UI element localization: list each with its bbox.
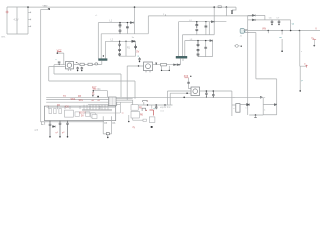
wire diodes join [255,15,290,20]
svg-text:u1: u1 [95,15,98,17]
connector J1 [240,29,246,34]
module G1 (circle in box) [66,62,74,69]
svg-text:c: c [56,59,58,61]
svg-text:n: n [233,108,234,110]
dot module1 cap [59,64,60,65]
wire bus line 2 [46,99,116,101]
wire J1 to diodes [244,15,252,32]
diode D12 mid [174,64,177,66]
wire jumper down [143,102,145,105]
svg-text:rev1: rev1 [160,110,165,113]
capacitor C1 stack A [119,23,122,28]
svg-text:io: io [122,112,124,114]
junction dots cluster A [119,22,120,23]
junction dots cluster D [197,40,198,41]
red flag far right dot [314,45,316,47]
wire module1 left pin run 2 [49,67,135,99]
wire right drop [290,20,292,31]
svg-text:n: n [264,97,266,99]
module block A1 (big board) [44,106,115,121]
stub right of loop [128,115,130,121]
junction dots output [206,90,208,92]
svg-text:5v: 5v [132,37,135,39]
jumper comp [143,100,147,102]
svg-text:d0: d0 [92,100,95,102]
svg-text:C7: C7 [276,18,280,20]
connector J2 right [236,104,240,113]
svg-text:SCL: SCL [79,100,84,102]
capacitor C15 right C [134,45,137,50]
flag dark mark [190,76,191,77]
capacitor C16 below C [138,57,141,61]
junction dots cluster B [196,21,197,22]
svg-text:R1: R1 [127,48,131,50]
node flag red left of IC U3 [92,88,97,90]
wire vertical to corner [300,31,307,67]
node VCC flag module1 [57,49,62,52]
wire module2 left pin [127,66,143,100]
wire bottom rail right [244,30,320,32]
resistor bank RN3 [59,108,61,113]
wire verticals cluster [241,97,275,115]
node label red mid right [305,65,307,68]
diode D8 [247,104,250,106]
svg-text:r: r [147,99,148,102]
svg-text:p: p [302,80,304,82]
wire module1 left pin run [54,65,121,98]
wire RST run [94,91,108,97]
sub box U4 [65,110,74,117]
svg-text:s: s [301,51,303,53]
capacitor C3 stack A2 [126,27,129,28]
svg-text:V: V [315,27,317,30]
box K1 [131,105,138,111]
wire stack C2 [125,41,127,56]
svg-text:VIN: VIN [262,28,266,31]
dark square below Q1 [151,126,153,128]
capacitor C19 stack D [197,53,200,56]
capacitor C27 [278,20,281,24]
wire bottom rail cell2 [263,105,277,115]
ground loop bottom [107,135,109,137]
capacitor C30 output [212,91,215,97]
box K2 [131,111,139,118]
svg-text:d1: d1 [98,100,101,102]
svg-text:RST: RST [92,88,97,90]
ground mid cluster [255,114,257,116]
wire U return [162,66,170,71]
capacitor C22 module1 right [76,67,79,70]
wire module2 right to IC2 [153,58,184,64]
wire stub right 3 [267,31,269,34]
svg-text:g: g [138,55,140,57]
IC U3 (controller) [109,97,117,106]
ferrite bead on interconnect [95,63,98,65]
wire top rail VBAT [28,6,236,8]
dots U return [161,70,162,71]
diode on bus end [260,96,262,98]
stub down right [299,66,301,91]
wire rail corner to D7 [232,7,236,10]
svg-text:C6: C6 [269,18,273,20]
small box left bus [92,115,97,119]
wire bus line 1 [46,96,263,98]
module G2 (circle in box) [144,62,153,71]
svg-text:R6: R6 [112,123,116,125]
wire below bus [84,112,120,114]
capacitor C17 stack D [197,41,200,48]
capacitor C23 module1 right [81,67,84,70]
svg-text:m: m [304,63,306,65]
module G1 right marks [76,62,79,64]
component below [143,119,146,121]
diode D2 cluster B [211,21,214,23]
diode D9 [274,104,276,106]
wire module3 top feed [189,78,192,89]
wire IC column right nested [179,22,185,57]
IC U2 bar [176,56,187,58]
battery BT1 [7,7,28,34]
fuse F1 on top rail [218,6,221,8]
diode D1 cluster A [130,22,133,24]
module G1 bottom pins [68,69,71,71]
resistor bank RN2 [54,108,56,113]
junction dot module2 pin [138,65,139,66]
wire long vertical feed left [41,9,104,121]
svg-text:R5: R5 [104,123,108,125]
wire bus line 3 [46,101,133,103]
diode D5 [252,14,255,16]
wire bus stub lines [116,99,133,105]
red flag far right [311,37,316,40]
net stub with label [281,31,283,52]
svg-text:5V: 5V [136,51,139,54]
capacitor C32 below block [59,121,62,137]
capacitor C13 stack C [118,48,121,52]
opto U6 symbol [234,45,239,48]
battery BT1 plus mark [6,11,9,14]
junction rail feed A [134,6,136,8]
jumper 2 [142,108,146,111]
svg-text:rly: rly [133,126,136,129]
svg-text:q: q [153,108,155,110]
wire stack B lower [196,31,198,35]
IC U1 bar [99,59,108,61]
thick pin bus over block [82,105,112,111]
svg-text:vb: vb [292,23,295,25]
capacitor C34 below heavy row [155,105,158,109]
capacitor C8 stack B2 [205,26,208,27]
junction dots cluster C [119,41,120,42]
capacitor C28 module3 top [187,82,190,83]
box Q1 [149,117,155,123]
node flag red above module3 [184,75,189,78]
capacitor C29 output [205,91,208,97]
wire cluster C rail [106,41,136,56]
module block A1 top pins [49,106,100,109]
battery BT1 cell tick 3 [28,26,31,28]
resistor R2 on interconnect [80,63,84,65]
capacitor C12 stack C [118,41,121,47]
junction dot module3 left [186,92,188,94]
wire stack B2 [205,22,207,35]
small box bank 2 [86,112,90,116]
net stub dot [281,50,283,52]
capacitor C26 [271,20,274,24]
wire inner top edge [47,107,117,109]
capacitor C14 stack C [118,53,121,56]
wire cluster A top rail [98,23,134,34]
stub above red wire [151,105,153,109]
capacitor C21 module1 [58,62,61,63]
stub down right dot [299,90,301,92]
wire VCC drop module1 [58,53,64,65]
wire stack A2 [126,23,128,34]
capacitor C6 stack B [195,29,198,32]
svg-text:J1: J1 [240,36,243,38]
wire J2 left pin [232,104,236,106]
wire IC column left nested [98,23,105,59]
wire module3 output right [200,91,232,116]
wire heavy row [138,104,173,106]
component loop bottom [106,133,109,135]
wire vertical right of IC [117,102,121,113]
wire cluster B rail [179,7,227,35]
svg-text:IO0: IO0 [65,105,70,108]
diode D10 below flag [92,92,94,95]
small box bank 3 [91,113,95,117]
capacitor C33 below block [66,121,69,137]
junction VBAT tap [48,8,50,10]
svg-text:SDA: SDA [71,98,76,101]
resistor bank RN1 [49,108,51,113]
diode D7 dot [231,13,232,14]
wire module3 left pins [168,91,192,105]
svg-text:4.2V: 4.2V [14,19,19,22]
svg-text:n: n [264,109,266,111]
module G2 bottom pins [146,71,150,73]
svg-text:g2: g2 [62,132,65,134]
svg-text:g1: g1 [56,132,59,134]
capacitor C20 stack D2 [204,47,207,48]
wire module1 right to IC1 pin [74,61,102,65]
diode D3 cluster C [132,40,135,42]
svg-text:n: n [246,107,247,109]
battery BT1 cell tick 1 [28,12,31,14]
svg-text:VBAT: VBAT [43,4,49,7]
diode D6 [252,19,255,21]
svg-text:RX: RX [78,96,82,98]
wire second rail [135,7,253,34]
svg-text:esp32 brd: esp32 brd [160,106,171,109]
junction dot mid [156,63,157,64]
small box bank 1 [75,112,79,116]
resistor R7 mid [161,64,167,66]
junction at battery top [27,6,29,8]
resistor R3 on interconnect [88,63,92,65]
svg-text:BT1: BT1 [2,37,7,39]
IC U1 pin dot [103,55,104,56]
dark mark above IC U3 [97,96,99,98]
RST flag dot [93,90,95,92]
diode D13 mid [177,64,180,66]
capacitor C5 stack B [195,22,198,28]
svg-text:gnd: gnd [35,130,39,132]
wire cluster D rail [185,41,213,57]
capacitor C18 stack D [197,49,200,53]
svg-text:R6: R6 [140,114,144,116]
wire bus line 4 [88,104,120,106]
svg-text:5V: 5V [81,115,84,117]
VCC flag dot [57,52,59,54]
battery BT1 cell tick 2 [28,19,31,21]
diode D4 cluster D [210,40,213,42]
wire long vertical right 1 [247,31,249,116]
tick rail2 [165,14,167,16]
wire VBAT tap stub [41,8,49,10]
capacitor C31 below block [49,121,52,137]
junction dot rail B [226,6,228,8]
loop below block [103,116,111,134]
diode D11 below block [53,126,56,128]
red wire segment [150,110,154,116]
svg-text:TX: TX [63,96,66,98]
capacitor C2 stack A [119,29,122,34]
wire below K2 [133,118,144,120]
svg-text:en: en [279,37,282,39]
module G3 (circle in box) [191,87,200,96]
wire cluster A feed from rail [134,7,136,34]
wire long vertical right 2 [247,33,277,105]
junction dots bottom rail [268,30,270,32]
ground stubs below block left [42,122,45,125]
diode D7 down from rail [231,10,233,13]
